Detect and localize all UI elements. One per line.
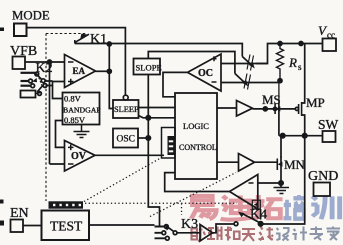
offset box plus xyxy=(252,200,260,209)
switch K2 stub2 xyxy=(21,80,29,82)
switch K2 stub1 xyxy=(21,72,36,74)
watermark slogan she2 xyxy=(276,228,289,241)
svg-text:SW: SW xyxy=(318,117,339,132)
svg-text:OC: OC xyxy=(198,68,213,79)
node Rs top xyxy=(278,42,282,46)
watermark slogan she xyxy=(192,227,206,242)
node SW-MP xyxy=(303,134,307,138)
buffer MS driver xyxy=(237,101,253,117)
svg-text:cc: cc xyxy=(327,30,335,40)
wire VFB to EA- xyxy=(25,61,65,63)
watermark char yi xyxy=(191,196,216,219)
node MS gate xyxy=(273,107,276,110)
connector striped box at LOGIC left xyxy=(162,128,176,159)
wire OC out loop to LOGIC xyxy=(163,72,188,96)
wire K3 to buffer xyxy=(177,232,200,234)
wire LOGIC to MS driver xyxy=(217,107,237,109)
wire EAout vertical xyxy=(109,44,113,109)
wire LOGIC to MN driver xyxy=(217,161,239,163)
pad VFB xyxy=(13,57,26,70)
wire OC+ sense xyxy=(221,63,268,65)
node osc-vert xyxy=(146,136,150,140)
svg-text:K2: K2 xyxy=(36,61,53,76)
ground MN xyxy=(274,188,290,194)
sense switch upper xyxy=(242,55,255,71)
svg-text:SLOPE: SLOPE xyxy=(136,63,162,73)
watermark char di xyxy=(221,195,252,219)
node Rs bottom xyxy=(278,79,282,83)
edge tick 2 xyxy=(0,200,4,204)
dotted test vertical K3 xyxy=(181,203,183,215)
wire SLEEP to LOGIC upper xyxy=(139,107,176,109)
wire OV out xyxy=(95,154,164,156)
op-amp EA xyxy=(65,55,96,88)
svg-text:0.85V: 0.85V xyxy=(64,115,86,125)
svg-text:GND: GND xyxy=(308,169,338,184)
buffer MN driver xyxy=(239,154,255,172)
wire K3 buffer out xyxy=(213,224,235,233)
svg-text:EA: EA xyxy=(73,66,86,76)
dotted test diagonal 1 xyxy=(84,158,162,202)
wire comp out loop xyxy=(165,173,230,192)
svg-text:EN: EN xyxy=(10,206,29,221)
op-amp OC xyxy=(188,54,222,91)
node MP top xyxy=(299,42,303,46)
wire MN gate xyxy=(255,161,278,163)
svg-text:SLEEP: SLEEP xyxy=(114,105,139,114)
node MN source comp xyxy=(279,181,283,185)
wire TEST out xyxy=(89,224,155,226)
pad MODE xyxy=(14,24,27,37)
svg-text:VFB: VFB xyxy=(10,44,37,59)
wire SLEEP to LOGIC lower xyxy=(139,116,176,118)
switch K2 contacts and levers xyxy=(29,72,53,95)
node gate1 xyxy=(263,107,267,111)
sense switch lower xyxy=(235,74,251,90)
transistor MN xyxy=(277,157,282,188)
wire OC- sense xyxy=(221,82,280,84)
svg-text:R: R xyxy=(288,55,297,70)
svg-text:OSC: OSC xyxy=(117,135,135,145)
wire EN to TEST xyxy=(23,225,42,227)
node EA out xyxy=(107,69,111,73)
watermark char pei xyxy=(283,195,305,219)
ground bandgap xyxy=(74,125,90,138)
pad Vcc xyxy=(323,39,337,52)
pad EN xyxy=(11,220,24,233)
buffer K3 xyxy=(200,225,213,242)
wire EA out xyxy=(96,70,110,72)
svg-text:OV: OV xyxy=(71,151,87,162)
block SLEEP xyxy=(113,95,139,118)
svg-text:MODE: MODE xyxy=(12,9,50,23)
wire MS gate bus xyxy=(253,108,296,110)
wire EA+ ref xyxy=(53,82,65,99)
block OSC xyxy=(113,129,138,148)
svg-text:K3: K3 xyxy=(181,217,198,232)
transistor MS xyxy=(275,81,280,136)
watermark slogan jia xyxy=(327,227,341,241)
wire SLOPE line B xyxy=(148,52,235,74)
svg-text:0.8V: 0.8V xyxy=(64,94,82,104)
svg-text:BANDGAP: BANDGAP xyxy=(63,106,101,115)
dashed IC boundary left xyxy=(46,34,86,202)
svg-text:MN: MN xyxy=(284,157,306,172)
svg-text:TEST: TEST xyxy=(50,219,83,234)
op-amp OV xyxy=(65,141,96,172)
node sleep-slope xyxy=(146,116,150,120)
node SW-MS xyxy=(281,134,285,138)
svg-text:s: s xyxy=(298,62,302,72)
watermark slogan zhuan xyxy=(310,227,324,241)
wire comp minus to MN xyxy=(258,182,281,184)
node VFB junction xyxy=(48,60,52,64)
svg-text:K1: K1 xyxy=(90,32,107,47)
wire SLOPE-OSC vertical xyxy=(148,75,159,227)
svg-text:K4: K4 xyxy=(250,208,267,223)
resistor Rs xyxy=(277,44,284,81)
comparator PWM xyxy=(230,175,258,210)
wire Vcc rail xyxy=(256,44,323,64)
wire K1 line A xyxy=(75,44,243,57)
switch K3 contacts xyxy=(162,225,177,241)
connector striped bar TEST xyxy=(49,201,84,208)
node K4 right xyxy=(258,222,262,226)
watermark slogan xian xyxy=(259,227,274,241)
WATERMARK xyxy=(191,195,340,241)
block BANDGAP xyxy=(63,93,100,125)
watermark char tuo xyxy=(252,195,283,218)
watermark char xun xyxy=(311,196,339,219)
dotted test diagonal 2 xyxy=(150,173,236,217)
svg-text:LOGIC: LOGIC xyxy=(183,121,209,131)
block TEST xyxy=(42,211,90,241)
wire OSC out xyxy=(138,137,148,139)
resistor K2 lower box xyxy=(21,91,36,98)
transistor MP xyxy=(295,44,304,136)
wire comp plus down K4 xyxy=(260,209,262,220)
watermark slogan tian xyxy=(242,229,255,241)
block LOGIC CONTROL xyxy=(175,93,217,179)
wire SW node xyxy=(279,135,323,137)
wire SW right down xyxy=(261,136,305,224)
switch K4 xyxy=(234,212,262,226)
switch K3 stubs xyxy=(155,227,166,239)
block SLOPE xyxy=(134,59,161,75)
pad GND xyxy=(314,183,331,197)
switch K2 stub3 xyxy=(21,85,31,87)
wire MODE to node xyxy=(27,28,126,96)
node K1-EA junction xyxy=(107,42,111,46)
wire Rs bottom to MS xyxy=(279,81,280,82)
wire VFB down to OV- xyxy=(50,62,65,164)
dotted test line horizontal xyxy=(85,202,237,204)
watermark slogan ji xyxy=(293,227,308,241)
watermark slogan he xyxy=(225,227,240,241)
switch K1 xyxy=(74,34,89,44)
pad SW xyxy=(323,131,336,142)
edge tick 3 xyxy=(0,221,4,226)
svg-text:MS: MS xyxy=(262,92,281,107)
watermark slogan pin xyxy=(207,227,222,241)
svg-text:MP: MP xyxy=(306,95,325,110)
wire MN drain xyxy=(281,136,283,158)
wire 0.85V to OV+ xyxy=(56,121,65,148)
edge tick 1 xyxy=(0,28,4,32)
svg-text:CONTROL: CONTROL xyxy=(179,143,217,152)
